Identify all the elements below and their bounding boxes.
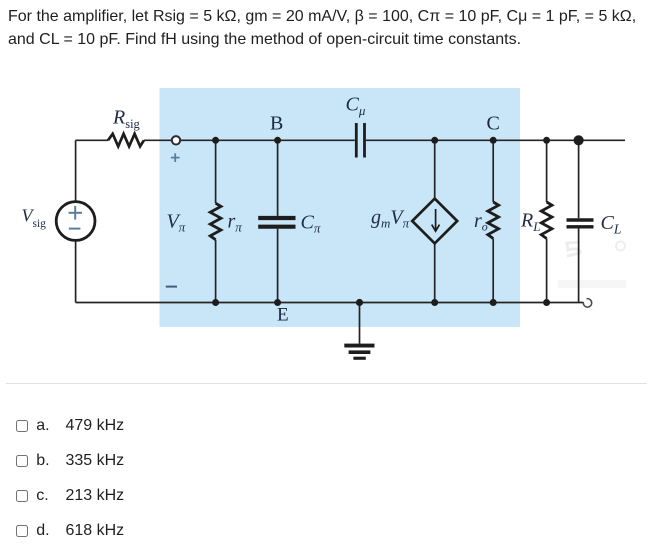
node dot output large [574, 135, 584, 145]
wire: RL branch lower [546, 239, 548, 303]
node dot bottom rpi [212, 299, 219, 306]
node dot top rpi [212, 137, 219, 144]
wire: gmVpi branch lower [434, 243, 436, 302]
wire: Rsig to input terminal [144, 139, 172, 141]
svg-text:Vsig: Vsig [22, 206, 47, 231]
wire: RL branch upper [546, 140, 548, 202]
input terminal open circle [172, 136, 180, 144]
Vsig minus sign [69, 228, 81, 230]
wire: input terminal to Cmu left plate [181, 139, 355, 141]
svg-text:RL: RL [520, 210, 540, 234]
svg-text:C: C [487, 113, 500, 135]
wire: ground stem [359, 303, 361, 344]
svg-text:B: B [270, 113, 283, 135]
wire: left vertical upper (Vsig to top wire) [75, 140, 77, 201]
wire: CL branch upper [578, 140, 580, 218]
node dot top RL [543, 137, 550, 144]
Vsig plus sign [69, 206, 83, 220]
watermark squiggle [567, 242, 580, 256]
shaded transistor model region [160, 88, 521, 327]
Vpi plus sign [171, 153, 180, 162]
dependent source gmVpi diamond [412, 199, 457, 244]
wire: rpi branch upper [215, 140, 217, 203]
capacitor Cmu plates [356, 123, 364, 158]
node dot bottom ro [490, 299, 497, 306]
ground symbol bars [344, 344, 374, 360]
resistor RL [541, 202, 552, 239]
wire: top left from Vsig corner to Rsig [76, 139, 108, 141]
wire: Cpi branch lower [277, 229, 279, 303]
Vpi minus sign [166, 286, 177, 288]
node E dot [274, 299, 281, 306]
watermark circle [616, 242, 625, 251]
wire: Cmu right plate to right end [366, 139, 625, 141]
node B dot [274, 137, 281, 144]
resistor rpi [210, 203, 221, 240]
bottom-right wire curl [583, 299, 591, 307]
capacitor CL plates [567, 220, 594, 227]
wire: Cpi branch upper [277, 140, 279, 216]
node dot bottom RL [543, 299, 550, 306]
svg-text:Rsig: Rsig [112, 107, 141, 131]
voltage source Vsig circle [56, 202, 95, 241]
node dot top gmVpi [431, 137, 438, 144]
resistor Rsig [108, 134, 144, 147]
wire: left vertical lower (Vsig to bottom wire) [75, 240, 77, 302]
wire: rpi branch lower [215, 240, 217, 303]
svg-text:E: E [277, 305, 289, 326]
watermark band [558, 280, 626, 288]
dependent source arrow [432, 209, 440, 231]
resistor ro [488, 202, 499, 239]
wire: bottom rail [76, 302, 584, 304]
svg-text:CL: CL [601, 212, 622, 236]
capacitor Cpi plates [258, 218, 295, 227]
wire: ro branch lower [492, 239, 494, 303]
node dot ground [356, 299, 363, 306]
wire: ro branch upper [492, 140, 494, 202]
node dot bottom gmVpi [431, 299, 438, 306]
wire: gmVpi branch upper [434, 140, 436, 199]
wire: CL branch lower [578, 229, 580, 303]
node C dot [490, 137, 497, 144]
